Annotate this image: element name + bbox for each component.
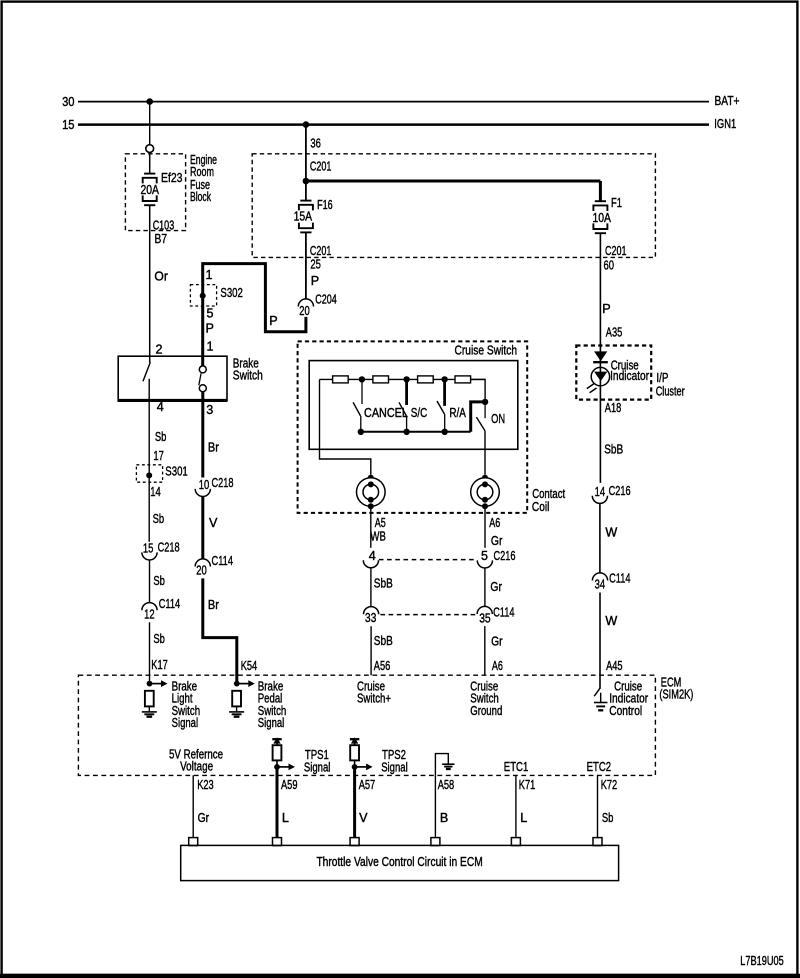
svg-text:WB: WB: [370, 529, 386, 543]
svg-text:ON: ON: [491, 412, 505, 426]
wire Br thick: C114 to ECM pin K54: [203, 578, 237, 683]
wire Sb: C218-15 to C114-12: [149, 560, 151, 603]
svg-text:4: 4: [157, 400, 164, 414]
wire P: F1 to cruise indicator: [599, 233, 601, 352]
svg-text:(SIM2K): (SIM2K): [659, 688, 693, 702]
svg-text:60: 60: [604, 259, 615, 273]
wire W segment C216 to C114: [599, 503, 601, 573]
svg-text:K72: K72: [601, 778, 618, 792]
svg-text:S301: S301: [165, 465, 188, 479]
svg-text:Throttle Valve Control Circuit: Throttle Valve Control Circuit in ECM: [316, 855, 482, 869]
svg-text:F1: F1: [611, 196, 622, 210]
brake switch left blade (pin 2-4): [143, 362, 150, 381]
svg-text:10: 10: [199, 478, 210, 492]
svg-text:34: 34: [595, 578, 606, 592]
junction dot C201/36: [303, 178, 310, 185]
wire pin 4 lower contact: [148, 379, 150, 542]
svg-text:ETC1: ETC1: [504, 760, 529, 774]
switch R/A: [443, 379, 446, 406]
svg-text:L: L: [282, 811, 289, 825]
wire Sb: C114-12 to ECM pin K17: [149, 622, 151, 683]
contact coil A6: [482, 475, 488, 481]
wire Gr: C216-5 to C114-35: [484, 568, 486, 606]
resistor TPS1: [273, 745, 282, 760]
svg-text:L7B19U05: L7B19U05: [740, 954, 784, 968]
svg-text:A18: A18: [605, 401, 622, 415]
svg-text:12: 12: [144, 607, 155, 621]
svg-text:2: 2: [156, 343, 163, 357]
svg-text:Signal: Signal: [172, 716, 199, 730]
svg-text:P: P: [602, 302, 610, 316]
svg-text:30: 30: [62, 95, 74, 109]
svg-text:S/C: S/C: [411, 406, 428, 420]
wire L: K71 to throttle box: [515, 775, 517, 838]
svg-text:1: 1: [207, 339, 214, 353]
connector C114 pin 35: [477, 606, 492, 614]
bus 15 IGN1: [78, 123, 709, 126]
svg-text:K71: K71: [519, 778, 536, 792]
brake switch right contact lower circle: [199, 385, 206, 392]
wire P: F16 to connector C204: [305, 232, 307, 299]
wire bottom bus: [361, 431, 471, 433]
resistor R1: [333, 376, 349, 383]
wire Br thick: brake switch pin 3 to connector C218: [201, 392, 204, 478]
svg-text:25: 25: [310, 257, 321, 271]
svg-text:TPS1: TPS1: [305, 748, 329, 762]
svg-text:A45: A45: [606, 659, 623, 673]
svg-text:SbB: SbB: [374, 634, 393, 648]
svg-text:A59: A59: [281, 778, 298, 792]
wire Gr: C114-35 to ECM pin A6: [484, 626, 486, 675]
svg-text:K23: K23: [197, 778, 214, 792]
dashed link C216: [379, 559, 477, 561]
svg-text:C204: C204: [315, 292, 337, 306]
svg-text:3: 3: [206, 403, 213, 417]
svg-text:V: V: [209, 516, 218, 530]
LED circle: [591, 367, 609, 385]
svg-text:C114: C114: [609, 571, 631, 585]
svg-text:P: P: [311, 274, 319, 288]
svg-text:1: 1: [206, 268, 213, 282]
svg-text:15A: 15A: [294, 210, 313, 224]
ground brake pedal signal: [229, 711, 244, 713]
svg-text:Br: Br: [208, 598, 219, 612]
svg-text:A58: A58: [438, 778, 455, 792]
svg-text:C103: C103: [153, 218, 175, 232]
svg-text:Gr: Gr: [490, 580, 502, 594]
junction dot S/C: [403, 376, 409, 382]
svg-text:Cluster: Cluster: [656, 385, 685, 399]
svg-text:Block: Block: [190, 190, 211, 204]
svg-text:TPS2: TPS2: [382, 748, 406, 762]
cruise switch outer box: [298, 341, 528, 513]
wire V thick: C218 to C114: [201, 497, 204, 560]
connector C114 pin 34: [592, 573, 607, 581]
svg-text:K54: K54: [241, 659, 258, 673]
svg-text:Sb: Sb: [153, 574, 165, 588]
ECM box (SIM2K): [78, 675, 655, 775]
svg-text:Signal: Signal: [304, 761, 331, 775]
node K17 brake light switch signal: [147, 681, 153, 687]
svg-text:5: 5: [481, 549, 488, 563]
connector C204 pin 20: [298, 299, 313, 307]
svg-text:C201: C201: [310, 160, 332, 174]
connector circle at fuse block entry: [146, 145, 154, 153]
svg-text:IGN1: IGN1: [714, 117, 736, 131]
engine room fuse block box: [125, 154, 185, 231]
wire bus30 to fuse block connector: [149, 102, 151, 145]
junction dot bus30 / Ef23 branch: [146, 98, 153, 105]
switch cruise indicator control (A45): [594, 688, 600, 696]
svg-text:SbB: SbB: [374, 577, 393, 591]
resistor R2: [373, 376, 389, 383]
fuse Ef23 20A: [144, 173, 155, 175]
resistor TPS2: [350, 745, 359, 760]
svg-text:Br: Br: [208, 441, 219, 455]
bus 30 BAT+: [78, 101, 709, 103]
svg-text:P: P: [206, 321, 214, 335]
svg-text:V: V: [359, 811, 368, 825]
LED cruise indicator: diode triangle: [594, 351, 607, 361]
wire chain right leg: [471, 379, 486, 402]
terminal squares on throttle box: [189, 838, 198, 846]
cruise switch inner box: [309, 361, 518, 450]
svg-text:5: 5: [207, 306, 214, 320]
svg-text:33: 33: [365, 611, 377, 625]
ground brake light signal: [142, 711, 157, 713]
svg-text:C201: C201: [605, 244, 627, 258]
svg-text:Gr: Gr: [198, 811, 210, 825]
svg-text:Indicator: Indicator: [610, 369, 649, 383]
wire Gr: K23 to throttle box: [192, 775, 194, 838]
throttle valve control box: [181, 845, 619, 880]
TPS1 power arrow: [272, 738, 281, 740]
svg-text:36: 36: [310, 137, 321, 151]
wire P thick: C204 jog to S302 to brake switch pin 1: [203, 264, 306, 366]
svg-text:Signal: Signal: [381, 761, 408, 775]
wire chain left leg to contact coil A5: [320, 379, 371, 474]
svg-text:C114: C114: [159, 597, 181, 611]
svg-text:14: 14: [595, 485, 606, 499]
svg-text:SbB: SbB: [604, 442, 623, 456]
dashed link C114: [380, 614, 476, 616]
wire Or: fuse Ef23 to brake switch pin 2: [149, 205, 151, 362]
cruise indicator box (I/P cluster): [576, 346, 651, 400]
svg-text:14: 14: [150, 485, 161, 499]
brake switch right blade: [199, 373, 201, 385]
resistor R3: [418, 376, 434, 383]
svg-text:P: P: [269, 314, 277, 328]
svg-text:Switch: Switch: [233, 368, 263, 382]
svg-text:Switch+: Switch+: [357, 692, 391, 706]
wire Sb: K72 to throttle box: [597, 775, 599, 838]
wire WB: coil A5 to C216 pin 4: [370, 506, 372, 548]
svg-text:C114: C114: [212, 554, 234, 568]
fuse block box (F16/F1): [252, 154, 655, 258]
resistor brake pedal signal: [232, 691, 241, 707]
ground cruise indicator control: [594, 702, 608, 704]
svg-text:A35: A35: [606, 325, 623, 339]
node A57 TPS2 signal: [352, 764, 358, 770]
svg-text:Ef23: Ef23: [161, 171, 183, 185]
svg-text:C201: C201: [310, 244, 332, 258]
svg-text:17: 17: [153, 449, 164, 463]
wire W segment C114 to A45: [599, 593, 601, 689]
svg-text:15: 15: [143, 541, 154, 555]
svg-text:L: L: [520, 811, 527, 825]
wire thick: junction to fuse F1: [306, 180, 601, 183]
switch ON: [484, 405, 486, 418]
splice S302: [190, 285, 216, 306]
connector C114 pin 20: [195, 559, 210, 567]
fuse F16 15A: [300, 200, 311, 202]
brake switch right contact upper circle: [199, 366, 206, 373]
svg-text:Cruise Switch: Cruise Switch: [455, 344, 518, 358]
wire B: A58 to throttle box: [434, 775, 436, 838]
svg-text:Or: Or: [154, 270, 168, 284]
svg-text:20A: 20A: [141, 183, 160, 197]
svg-text:Sb: Sb: [153, 512, 165, 526]
svg-text:Sb: Sb: [153, 632, 165, 646]
svg-text:Sb: Sb: [602, 811, 614, 825]
wire connector to fuse Ef23: [149, 153, 151, 174]
svg-text:C216: C216: [494, 549, 516, 563]
svg-text:Ground: Ground: [470, 704, 502, 718]
LED inner triangle: [594, 372, 607, 382]
wire ON to contact coil A6: [484, 431, 486, 475]
svg-text:A6: A6: [492, 659, 503, 673]
svg-text:BAT+: BAT+: [715, 94, 740, 108]
svg-text:C114: C114: [493, 606, 514, 620]
svg-text:B: B: [440, 811, 448, 825]
ground at A58 inside ECM: [435, 754, 448, 776]
svg-text:4: 4: [369, 549, 376, 563]
wire V thick: A57 to throttle box: [353, 767, 356, 838]
svg-text:20: 20: [299, 304, 310, 318]
svg-text:W: W: [605, 614, 617, 628]
svg-text:A57: A57: [359, 778, 376, 792]
connector C114 pin 12: [142, 603, 157, 611]
wire SbB: C216-4 to C114-33: [370, 568, 372, 607]
svg-text:15: 15: [62, 118, 74, 132]
contact coil A5: [368, 475, 374, 481]
switch S/C: [405, 379, 408, 405]
junction dot CANCEL: [359, 376, 365, 382]
junction dot ON: [482, 399, 488, 405]
svg-text:Sb: Sb: [155, 430, 167, 444]
svg-text:20: 20: [196, 564, 207, 578]
svg-text:R/A: R/A: [449, 406, 466, 420]
connector C114 pin 33: [364, 607, 379, 615]
svg-text:C216: C216: [609, 484, 631, 498]
svg-text:Control: Control: [609, 704, 642, 718]
wire thick riser to ON contact: [471, 402, 485, 432]
svg-text:S302: S302: [220, 286, 243, 300]
svg-text:F16: F16: [317, 198, 333, 212]
wire bus15 to C201 junction: [305, 125, 307, 201]
LED light rays: [587, 384, 594, 389]
fuse F1 10A: [595, 200, 606, 202]
wire resistor chain top: [320, 378, 486, 380]
svg-text:A56: A56: [374, 659, 391, 673]
wire Gr: coil A6 to C216 pin 5: [484, 506, 486, 548]
svg-text:W: W: [605, 526, 617, 540]
TPS2 power arrow: [350, 738, 359, 740]
wire L thick: A59 to throttle box: [276, 767, 279, 838]
svg-text:K17: K17: [151, 658, 168, 672]
svg-text:C218: C218: [158, 540, 180, 554]
resistor brake light signal: [145, 691, 154, 707]
svg-text:A6: A6: [489, 516, 500, 530]
svg-text:Contact: Contact: [532, 487, 565, 501]
node A59 TPS1 signal: [274, 764, 280, 770]
wire SbB: C114-33 to ECM pin A56: [370, 626, 372, 675]
svg-text:ETC2: ETC2: [587, 760, 612, 774]
splice S301: [136, 465, 162, 482]
svg-text:10A: 10A: [593, 211, 612, 225]
svg-text:Gr: Gr: [491, 635, 503, 649]
svg-text:C218: C218: [212, 476, 234, 490]
wire through LED symbol down to C216 pin 14: [599, 352, 601, 483]
svg-text:Signal: Signal: [258, 716, 285, 730]
switch CANCEL: [361, 379, 363, 404]
svg-text:I/P: I/P: [656, 371, 668, 385]
svg-text:B7: B7: [155, 232, 168, 246]
svg-text:Gr: Gr: [491, 534, 503, 548]
junction dot R/A: [441, 376, 447, 382]
LED cathode bar: [593, 361, 608, 363]
svg-text:Voltage: Voltage: [180, 760, 213, 774]
brake switch box: [118, 356, 227, 400]
svg-text:A5: A5: [375, 516, 386, 530]
junction dot bus15 / C201 branch: [303, 121, 310, 128]
node K54 brake pedal switch signal: [234, 681, 240, 687]
svg-text:35: 35: [479, 612, 491, 626]
svg-text:Coil: Coil: [532, 500, 550, 514]
resistor R4: [455, 376, 471, 383]
svg-text:CANCEL: CANCEL: [364, 406, 408, 420]
